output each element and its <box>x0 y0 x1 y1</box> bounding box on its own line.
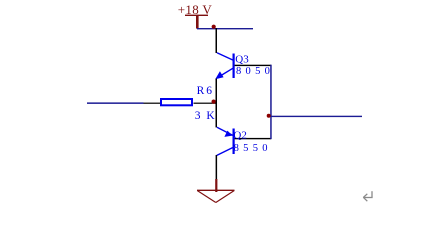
Q3 base pin <box>235 65 272 66</box>
paragraph return mark <box>363 191 372 201</box>
wire vcc to Q3 collector <box>216 28 218 53</box>
svg-text:3 K: 3 K <box>195 110 216 122</box>
wire input left <box>87 102 144 104</box>
transistor Q2 <box>217 127 234 155</box>
svg-text:R6: R6 <box>197 85 214 97</box>
resistor R6 lead right <box>194 103 217 104</box>
node junction dot middle <box>212 100 216 104</box>
wire top horizontal <box>197 28 253 29</box>
svg-text:8050: 8050 <box>236 66 274 77</box>
resistor R6 body <box>161 99 192 105</box>
resistor R6 lead left <box>144 103 161 104</box>
wire Q2 collector down <box>216 155 218 179</box>
power bar symbol <box>185 15 208 16</box>
svg-text:Q3: Q3 <box>235 54 249 66</box>
transistor Q3 <box>217 53 234 78</box>
node junction dot output <box>267 114 271 118</box>
wire emitters vertical <box>216 79 218 128</box>
Q2 base pin <box>235 138 272 139</box>
svg-text:Q2: Q2 <box>233 129 246 141</box>
ground <box>197 179 235 203</box>
wire output right <box>271 116 362 117</box>
node junction dot top <box>212 25 216 29</box>
wire bases vertical right <box>270 65 272 139</box>
svg-text:8550: 8550 <box>234 143 272 154</box>
